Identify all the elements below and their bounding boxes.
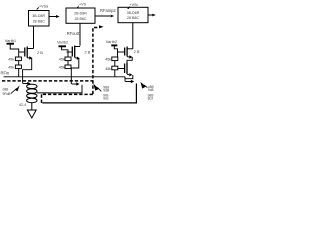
svg-text:2 B: 2 B (85, 50, 91, 55)
svg-text:45k: 45k (8, 58, 14, 62)
svg-text:RFamp2: RFamp2 (100, 8, 116, 13)
svg-text:28 B8C: 28 B8C (127, 16, 139, 20)
svg-text:RFout0: RFout0 (67, 31, 81, 36)
svg-text:9d8: 9d8 (148, 88, 154, 92)
svg-text:2B-D8R: 2B-D8R (74, 12, 87, 16)
svg-text:Varib2: Varib2 (57, 39, 69, 44)
svg-text:Varib1: Varib1 (5, 38, 17, 43)
svg-text:+VSr: +VSr (130, 3, 139, 7)
svg-text:45k: 45k (59, 66, 65, 70)
svg-text:28 B8C: 28 B8C (33, 19, 45, 23)
svg-text:RFin: RFin (1, 70, 10, 75)
svg-text:9Rd8: 9Rd8 (3, 92, 11, 96)
svg-text:8c9: 8c9 (148, 97, 153, 101)
svg-text:9dB: 9dB (103, 89, 110, 93)
svg-text:42-4: 42-4 (19, 103, 26, 107)
svg-text:2 B: 2 B (37, 50, 43, 55)
svg-text:45k: 45k (105, 67, 111, 71)
svg-text:+VSa: +VSa (39, 4, 49, 8)
svg-text:3B-D8R: 3B-D8R (127, 11, 140, 15)
svg-text:Varib2: Varib2 (106, 39, 118, 44)
svg-text:3B-D8R: 3B-D8R (32, 14, 45, 18)
svg-text:d8B: d8B (3, 87, 10, 91)
svg-text:45k: 45k (8, 66, 14, 70)
svg-text:+VS: +VS (79, 2, 87, 6)
svg-text:45k: 45k (59, 58, 65, 62)
svg-text:28 B8C: 28 B8C (75, 17, 87, 21)
svg-text:9dc: 9dc (103, 96, 109, 100)
svg-text:45k: 45k (105, 58, 111, 62)
svg-text:2 B: 2 B (134, 49, 140, 54)
